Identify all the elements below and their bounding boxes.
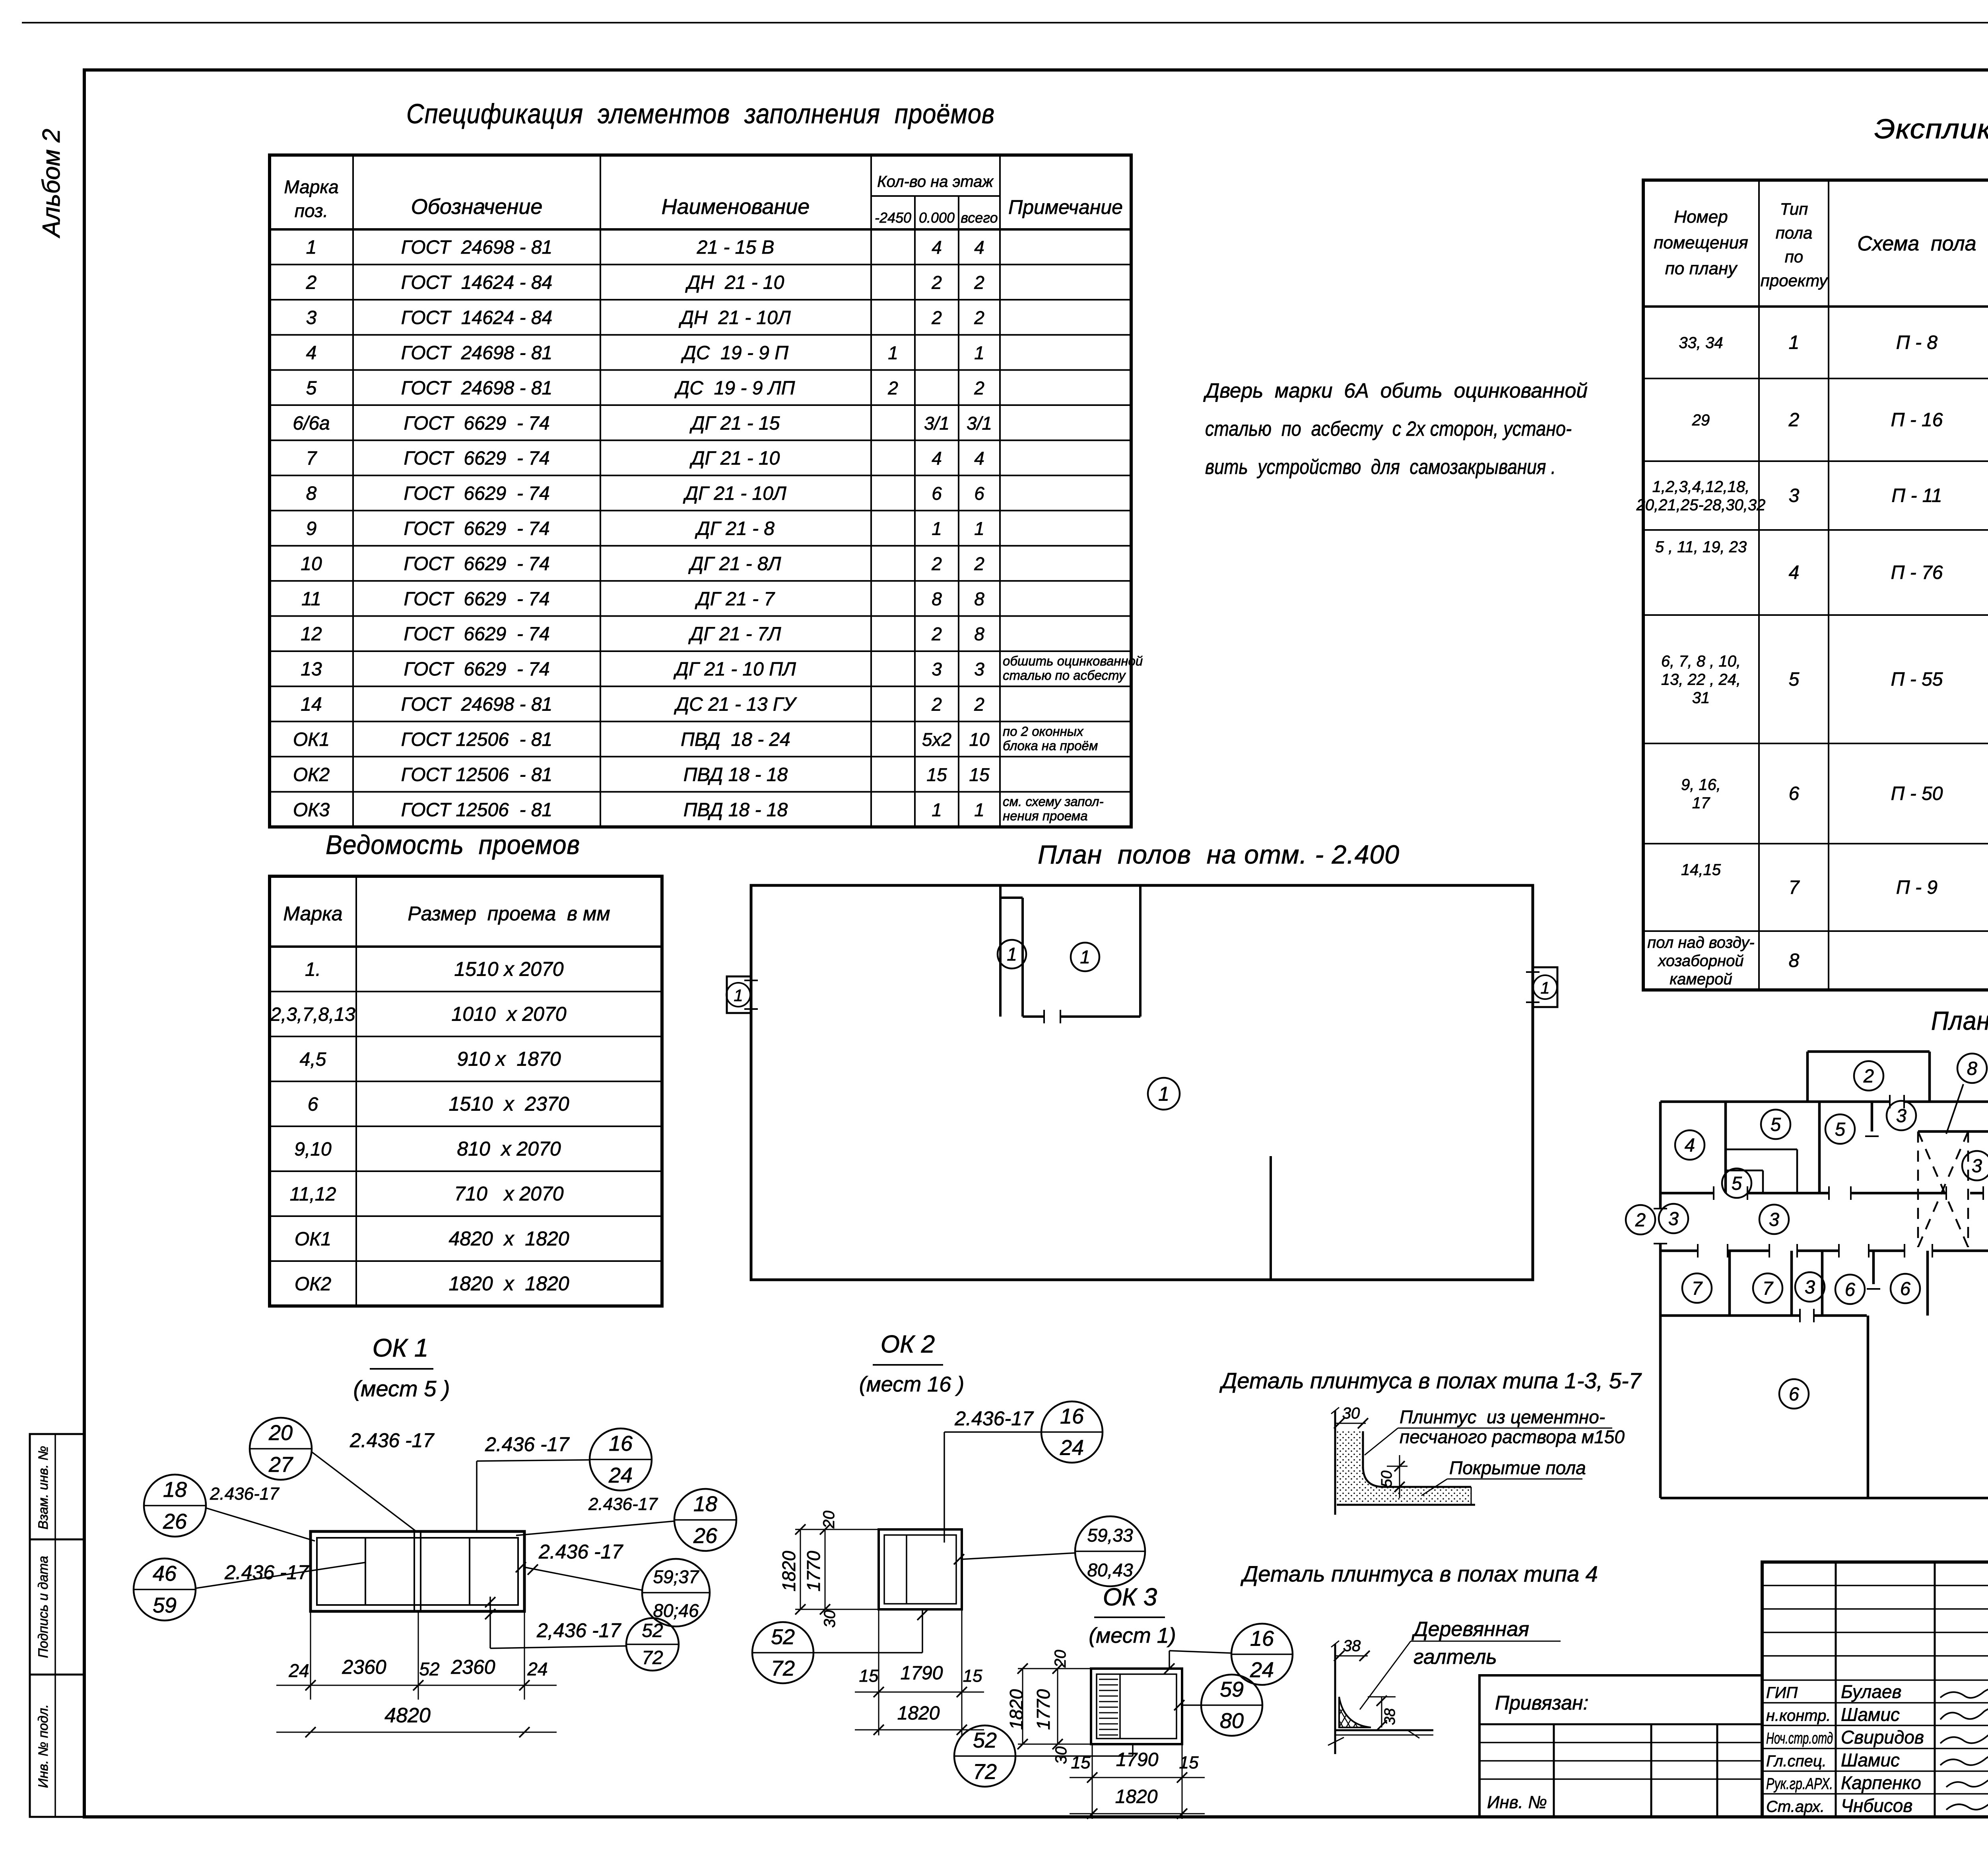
plan 0.000 leader for 8: [1946, 1084, 1963, 1134]
svg-text:38: 38: [1382, 1708, 1398, 1725]
svg-text:27: 27: [268, 1453, 293, 1477]
svg-text:Деталь плинтуса в полах типа 1: Деталь плинтуса в полах типа 1-3, 5-7: [1219, 1368, 1642, 1393]
plan -2.400 top room walls: [999, 885, 1002, 1017]
svg-text:59;37: 59;37: [653, 1566, 699, 1587]
svg-text:12: 12: [301, 624, 322, 645]
svg-text:1: 1: [1158, 1083, 1169, 1105]
svg-text:Спецификация элементов запол: Спецификация элементов заполнения проёмо…: [406, 98, 995, 129]
plan -2.400 right section tag: [1526, 967, 1557, 1007]
svg-text:910 х 1870: 910 х 1870: [457, 1048, 561, 1070]
svg-text:ПВД 18 - 24: ПВД 18 - 24: [681, 729, 790, 750]
svg-text:52: 52: [973, 1728, 997, 1752]
svg-text:72: 72: [771, 1656, 795, 1680]
svg-text:3/1: 3/1: [967, 413, 992, 433]
svg-text:ГОСТ 24698 - 81: ГОСТ 24698 - 81: [401, 342, 552, 363]
svg-text:1,2,3,4,12,18,: 1,2,3,4,12,18,: [1652, 478, 1750, 496]
svg-text:3: 3: [1972, 1155, 1982, 1176]
svg-text:Ноч.стр.отд: Ноч.стр.отд: [1766, 1730, 1833, 1747]
svg-text:80: 80: [1220, 1709, 1244, 1733]
svg-text:8: 8: [1789, 950, 1800, 971]
svg-text:Шамис: Шамис: [1841, 1750, 1900, 1770]
svg-text:Карпенко: Карпенко: [1841, 1772, 1921, 1793]
break marks: [1328, 1737, 1344, 1745]
svg-text:Деталь плинтуса в полах типа 4: Деталь плинтуса в полах типа 4: [1240, 1561, 1598, 1586]
room mark circle 6: [1835, 1275, 1865, 1304]
room mark circle 1: [998, 940, 1026, 968]
svg-text:ГОСТ 6629 - 74: ГОСТ 6629 - 74: [404, 553, 549, 574]
OK1 window elevation: [311, 1531, 524, 1611]
svg-text:1790: 1790: [1116, 1749, 1159, 1770]
svg-text:ГОСТ 6629 - 74: ГОСТ 6629 - 74: [404, 588, 549, 609]
room mark circle 3: [1795, 1272, 1825, 1302]
svg-text:Деревянная: Деревянная: [1411, 1618, 1529, 1641]
svg-text:2.436-17: 2.436-17: [954, 1407, 1034, 1430]
svg-text:2: 2: [931, 624, 942, 644]
OK1 leader circles: [250, 1418, 312, 1480]
svg-text:9,10: 9,10: [294, 1139, 332, 1160]
OK2 bottom dimensions: [878, 1609, 879, 1698]
svg-text:П - 8: П - 8: [1896, 332, 1938, 353]
svg-text:(мест 5 ): (мест 5 ): [353, 1376, 450, 1401]
svg-text:1790: 1790: [901, 1663, 943, 1684]
room mark circle 3: [1962, 1151, 1988, 1180]
svg-text:15: 15: [859, 1666, 879, 1686]
explikacia grid: [1643, 180, 1988, 990]
svg-text:1: 1: [888, 342, 898, 363]
svg-text:ПВД 18 - 18: ПВД 18 - 18: [683, 764, 788, 785]
svg-text:24: 24: [1250, 1658, 1274, 1682]
svg-text:11: 11: [301, 588, 321, 609]
svg-text:1: 1: [1540, 978, 1549, 997]
svg-text:ДС 19 - 9 ЛП: ДС 19 - 9 ЛП: [674, 378, 795, 399]
plan 0.000 corridor lower wall: [1660, 1250, 1698, 1252]
svg-text:ГОСТ 6629 - 74: ГОСТ 6629 - 74: [404, 483, 549, 504]
svg-text:П - 11: П - 11: [1891, 485, 1942, 507]
OK3 leader to 52/72: [954, 1725, 1015, 1787]
svg-text:ДГ 21 - 7: ДГ 21 - 7: [695, 588, 775, 609]
svg-text:17: 17: [1692, 794, 1710, 812]
svg-text:2: 2: [1635, 1209, 1646, 1230]
svg-text:1: 1: [932, 518, 942, 539]
svg-text:сталью по асбесту: сталью по асбесту: [1003, 668, 1126, 683]
svg-text:1: 1: [974, 342, 984, 363]
svg-text:3: 3: [1668, 1208, 1679, 1229]
svg-text:1: 1: [1080, 947, 1090, 967]
svg-text:1: 1: [974, 518, 984, 539]
svg-text:4: 4: [974, 237, 984, 258]
svg-text:План полов на отм. - 2.400: План полов на отм. - 2.400: [1038, 840, 1400, 869]
svg-text:пола: пола: [1776, 223, 1813, 242]
svg-text:52: 52: [419, 1659, 439, 1679]
svg-text:13: 13: [301, 659, 322, 680]
svg-text:7: 7: [1763, 1277, 1774, 1298]
svg-text:6: 6: [932, 483, 942, 504]
svg-text:3: 3: [1805, 1276, 1815, 1297]
room mark circle 7: [1753, 1273, 1782, 1303]
svg-text:15: 15: [963, 1666, 982, 1686]
svg-text:810 х 2070: 810 х 2070: [457, 1138, 561, 1160]
svg-text:Ведомость проемов: Ведомость проемов: [326, 830, 580, 860]
svg-text:Обозначение: Обозначение: [411, 195, 543, 219]
svg-text:72: 72: [642, 1648, 663, 1669]
svg-text:11,12: 11,12: [290, 1184, 336, 1205]
svg-text:камерой: камерой: [1670, 970, 1732, 988]
svg-text:н.контр.: н.контр.: [1766, 1707, 1831, 1724]
svg-text:по 2 оконных: по 2 оконных: [1003, 724, 1084, 739]
svg-text:ОК 2: ОК 2: [881, 1331, 935, 1358]
svg-text:1: 1: [932, 800, 942, 820]
OK1 dimension line 2: [276, 1732, 557, 1733]
svg-text:П - 55: П - 55: [1891, 669, 1943, 690]
svg-text:ДН 21 - 10: ДН 21 - 10: [685, 272, 784, 293]
svg-text:2,436 -17: 2,436 -17: [536, 1619, 621, 1642]
svg-text:2: 2: [974, 272, 984, 293]
svg-text:Ст.арх.: Ст.арх.: [1766, 1798, 1825, 1816]
svg-text:4: 4: [1789, 562, 1800, 583]
svg-text:4,5: 4,5: [300, 1049, 326, 1070]
svg-text:обшить оцинкованной: обшить оцинкованной: [1003, 654, 1143, 668]
room mark circle 3: [1659, 1204, 1688, 1233]
svg-text:Булаев: Булаев: [1841, 1681, 1902, 1702]
svg-text:2.436-17: 2.436-17: [588, 1494, 658, 1514]
svg-text:50: 50: [1378, 1471, 1395, 1487]
svg-text:46: 46: [153, 1562, 177, 1585]
room mark circle 3: [1759, 1205, 1789, 1234]
svg-text:П - 16: П - 16: [1891, 409, 1943, 431]
OK3 bottom dimensions: [1092, 1744, 1093, 1785]
svg-text:14: 14: [301, 694, 322, 715]
svg-text:18: 18: [163, 1478, 187, 1502]
svg-text:4: 4: [306, 342, 317, 363]
svg-text:2: 2: [931, 272, 942, 293]
svg-text:3: 3: [932, 659, 942, 679]
svg-text:6, 7, 8 , 10,: 6, 7, 8 , 10,: [1661, 653, 1741, 670]
svg-text:Экспликация полов: Экспликация полов: [1874, 113, 1988, 144]
svg-text:59: 59: [1220, 1677, 1244, 1701]
svg-text:ГОСТ 6629 - 74: ГОСТ 6629 - 74: [404, 624, 549, 645]
room mark circle 6: [1779, 1379, 1809, 1409]
svg-text:16: 16: [1250, 1626, 1274, 1650]
svg-text:1: 1: [1007, 944, 1017, 964]
svg-text:ДН 21 - 10Л: ДН 21 - 10Л: [678, 307, 791, 328]
svg-text:1: 1: [974, 800, 984, 820]
svg-text:1820 х 1820: 1820 х 1820: [448, 1273, 569, 1295]
top edge line: [22, 22, 1988, 23]
OK2 window elevation: [879, 1529, 962, 1609]
svg-text:38: 38: [1343, 1637, 1361, 1655]
svg-text:всего: всего: [961, 210, 998, 226]
room mark circle 8: [1957, 1054, 1987, 1083]
svg-text:2360: 2360: [342, 1656, 386, 1678]
svg-text:ГОСТ 6629 - 74: ГОСТ 6629 - 74: [404, 413, 549, 434]
plan 0.000 stairs top wall: [1918, 1130, 1988, 1133]
svg-text:Тип: Тип: [1780, 200, 1808, 218]
svg-text:ГИП: ГИП: [1766, 1684, 1798, 1702]
svg-text:ОК1: ОК1: [295, 1229, 331, 1250]
svg-text:24: 24: [1060, 1436, 1084, 1459]
room mark circle 1: [1148, 1078, 1180, 1110]
svg-text:2: 2: [306, 272, 317, 293]
plan 0.000 top walls: [1660, 1100, 1890, 1103]
svg-text:Шамис: Шамис: [1841, 1704, 1900, 1725]
privyazan box: [1479, 1675, 1762, 1817]
svg-text:6/6а: 6/6а: [293, 413, 330, 434]
svg-text:Свиридов: Свиридов: [1841, 1727, 1924, 1748]
svg-text:ГОСТ 6629 - 74: ГОСТ 6629 - 74: [404, 518, 549, 539]
svg-text:ГОСТ 24698 - 81: ГОСТ 24698 - 81: [401, 694, 552, 715]
svg-text:1820: 1820: [779, 1551, 799, 1591]
plan 0.000 lower rooms partitions: [1728, 1251, 1731, 1316]
svg-text:ГОСТ 12506 - 81: ГОСТ 12506 - 81: [401, 800, 552, 821]
svg-text:10: 10: [969, 729, 990, 750]
svg-text:Наименование: Наименование: [662, 195, 810, 219]
svg-text:31: 31: [1692, 689, 1710, 707]
plan 0.000 top room 2 left: [1807, 1050, 1930, 1053]
svg-text:2.436 -17: 2.436 -17: [485, 1433, 570, 1455]
svg-text:Примечание: Примечание: [1008, 196, 1123, 218]
svg-text:5: 5: [1771, 1114, 1781, 1135]
svg-text:ОК2: ОК2: [293, 764, 330, 785]
svg-text:710 х 2070: 710 х 2070: [454, 1183, 563, 1205]
OK3 left dimensions: [1022, 1669, 1023, 1744]
svg-text:8: 8: [974, 624, 984, 644]
svg-text:1.: 1.: [305, 959, 321, 980]
svg-text:2.436-17: 2.436-17: [210, 1484, 280, 1504]
svg-text:4820 х 1820: 4820 х 1820: [448, 1228, 569, 1250]
svg-text:нения проема: нения проема: [1003, 809, 1088, 823]
svg-text:ГОСТ 12506 - 81: ГОСТ 12506 - 81: [401, 729, 552, 750]
svg-text:ГОСТ 24698 - 81: ГОСТ 24698 - 81: [401, 237, 552, 258]
svg-text:ГОСТ 24698 - 81: ГОСТ 24698 - 81: [401, 378, 552, 399]
svg-text:Размер проема в мм: Размер проема в мм: [408, 902, 610, 925]
svg-text:3/1: 3/1: [924, 413, 949, 433]
svg-text:Инв. №: Инв. №: [1487, 1793, 1547, 1812]
svg-text:2: 2: [931, 553, 942, 574]
svg-text:ОК2: ОК2: [295, 1274, 331, 1295]
svg-text:14,15: 14,15: [1681, 861, 1721, 879]
svg-text:1820: 1820: [1115, 1786, 1158, 1807]
svg-text:1510 х 2070: 1510 х 2070: [454, 958, 563, 980]
svg-text:1820: 1820: [897, 1703, 940, 1724]
svg-text:ГОСТ 6629 - 74: ГОСТ 6629 - 74: [404, 659, 549, 680]
svg-text:30: 30: [1342, 1405, 1360, 1422]
svg-text:8: 8: [1967, 1058, 1977, 1079]
svg-text:20,21,25-28,30,32: 20,21,25-28,30,32: [1636, 497, 1766, 514]
plan 0.000 left wall: [1659, 1102, 1662, 1209]
OK1 leader lines: [312, 1452, 416, 1531]
room mark circle 7: [1682, 1273, 1712, 1303]
svg-text:по плану: по плану: [1665, 259, 1738, 278]
svg-text:ГОСТ 6629 - 74: ГОСТ 6629 - 74: [404, 448, 549, 469]
svg-text:П - 76: П - 76: [1891, 562, 1943, 583]
svg-text:59: 59: [153, 1593, 177, 1617]
svg-text:ДГ 21 - 10: ДГ 21 - 10: [689, 448, 780, 469]
room mark circle 6: [1891, 1274, 1920, 1303]
room mark circle 5: [1825, 1114, 1855, 1144]
svg-text:30: 30: [821, 1610, 839, 1628]
OK3 circle 59/80: [1201, 1675, 1262, 1736]
room mark circle 5: [1722, 1168, 1751, 1198]
svg-text:П - 9: П - 9: [1896, 877, 1938, 898]
svg-text:галтель: галтель: [1413, 1646, 1497, 1669]
svg-text:сталью по асбесту с 2х стор: сталью по асбесту с 2х сторон, устано-: [1205, 417, 1572, 441]
svg-text:по: по: [1785, 247, 1803, 266]
svg-text:3: 3: [974, 659, 984, 679]
svg-text:ДГ 21 - 8Л: ДГ 21 - 8Л: [688, 553, 781, 574]
svg-text:проекту: проекту: [1761, 271, 1829, 290]
svg-text:Взам. инв. №: Взам. инв. №: [36, 1446, 51, 1529]
svg-text:3: 3: [1769, 1209, 1779, 1230]
svg-text:хозаборной: хозаборной: [1657, 952, 1743, 970]
svg-text:ДГ 21 - 7Л: ДГ 21 - 7Л: [688, 624, 781, 645]
svg-text:ОК1: ОК1: [293, 729, 330, 750]
svg-text:2: 2: [887, 378, 898, 398]
svg-text:ДС 21 - 13 ГУ: ДС 21 - 13 ГУ: [674, 694, 797, 715]
svg-text:33, 34: 33, 34: [1679, 334, 1723, 352]
svg-text:1770: 1770: [1033, 1689, 1054, 1730]
svg-text:1: 1: [1789, 332, 1800, 353]
svg-text:24: 24: [288, 1660, 309, 1681]
svg-text:10: 10: [301, 553, 322, 574]
svg-text:8: 8: [932, 588, 942, 609]
svg-text:5: 5: [1835, 1118, 1846, 1139]
svg-text:План полов на отм. 0.000: План полов на отм. 0.000: [1931, 1006, 1988, 1035]
svg-text:2: 2: [974, 553, 984, 574]
svg-text:Рук.гр.АРХ.: Рук.гр.АРХ.: [1766, 1775, 1833, 1793]
svg-text:2,3,7,8,13: 2,3,7,8,13: [270, 1004, 355, 1025]
svg-text:ДГ 21 - 10Л: ДГ 21 - 10Л: [683, 483, 786, 504]
svg-text:15: 15: [1071, 1753, 1091, 1772]
svg-text:5 , 11, 19, 23: 5 , 11, 19, 23: [1655, 538, 1747, 556]
room mark circle 5: [1761, 1110, 1790, 1139]
svg-text:ДГ 21 - 8: ДГ 21 - 8: [695, 518, 775, 539]
svg-text:2: 2: [974, 694, 984, 715]
svg-text:52: 52: [642, 1620, 663, 1642]
svg-text:Чнбисов: Чнбисов: [1841, 1795, 1912, 1816]
left margin stamp boxes: [30, 1434, 84, 1817]
svg-text:5: 5: [1732, 1172, 1742, 1193]
svg-text:4: 4: [1685, 1134, 1695, 1155]
svg-text:2360: 2360: [450, 1656, 495, 1678]
svg-text:7: 7: [1789, 877, 1800, 898]
svg-text:поз.: поз.: [295, 200, 328, 221]
svg-text:1820: 1820: [1006, 1689, 1027, 1730]
svg-text:13, 22 , 24,: 13, 22 , 24,: [1661, 671, 1741, 689]
svg-text:3: 3: [1789, 485, 1800, 507]
svg-text:15: 15: [1179, 1753, 1199, 1772]
svg-text:1: 1: [306, 237, 317, 258]
svg-text:Привязан:: Привязан:: [1495, 1692, 1588, 1714]
svg-text:Инв. № подл.: Инв. № подл.: [36, 1704, 51, 1788]
svg-text:0.000: 0.000: [919, 210, 955, 226]
svg-text:2.436 -17: 2.436 -17: [224, 1561, 309, 1584]
title block frame: [1762, 1562, 1988, 1817]
svg-text:ОК 3: ОК 3: [1103, 1584, 1157, 1611]
svg-text:вить устройство для самозак: вить устройство для самозакрывания .: [1205, 456, 1556, 479]
svg-text:5: 5: [1789, 669, 1800, 690]
svg-text:4: 4: [932, 448, 942, 469]
svg-text:30: 30: [1052, 1747, 1070, 1764]
svg-text:15: 15: [969, 764, 990, 785]
svg-text:3: 3: [306, 307, 317, 328]
svg-text:ОК3: ОК3: [293, 800, 330, 821]
OK3 circle 16/24: [1231, 1624, 1293, 1685]
svg-text:блока на проём: блока на проём: [1003, 738, 1098, 753]
svg-text:20: 20: [268, 1421, 293, 1445]
plan 0.000 upper band partitions: [1724, 1102, 1727, 1193]
svg-text:24: 24: [527, 1659, 547, 1679]
svg-text:9, 16,: 9, 16,: [1681, 776, 1721, 794]
svg-text:Гл.спец.: Гл.спец.: [1766, 1752, 1827, 1770]
svg-text:6: 6: [1900, 1278, 1911, 1299]
svg-text:2.436 -17: 2.436 -17: [538, 1541, 623, 1563]
svg-text:59,33: 59,33: [1087, 1525, 1133, 1545]
svg-text:15: 15: [926, 764, 947, 785]
plinth detail 1 sketch: [1334, 1411, 1336, 1515]
svg-text:18: 18: [693, 1492, 717, 1516]
svg-text:Схема пола: Схема пола: [1857, 232, 1976, 255]
room mark circle 3: [1887, 1101, 1916, 1130]
svg-text:4: 4: [932, 237, 942, 258]
svg-text:помещения: помещения: [1654, 233, 1748, 252]
svg-text:(мест 1): (мест 1): [1089, 1624, 1176, 1648]
svg-text:Дверь марки 6А обить оцинк: Дверь марки 6А обить оцинкованной: [1203, 379, 1588, 402]
svg-text:2: 2: [1788, 409, 1800, 431]
plan 0.000 hall divider: [1867, 1316, 1870, 1498]
svg-text:7: 7: [1692, 1277, 1703, 1298]
title block left columns: [1835, 1562, 1837, 1817]
svg-text:26: 26: [693, 1524, 718, 1548]
OK2 circle 59,33/80,43: [1075, 1516, 1145, 1586]
svg-text:1770: 1770: [803, 1551, 824, 1591]
svg-text:52: 52: [771, 1625, 795, 1649]
svg-text:6: 6: [1845, 1279, 1856, 1300]
OK2 circle 52/72: [752, 1622, 813, 1683]
svg-text:8: 8: [974, 588, 984, 609]
room mark circle 2: [1626, 1205, 1655, 1234]
OK1 dimension line 1: [310, 1611, 311, 1700]
svg-text:26: 26: [163, 1510, 187, 1533]
plan -2.400 left section tag: [726, 976, 758, 1013]
svg-text:80,43: 80,43: [1087, 1560, 1133, 1580]
svg-text:80;46: 80;46: [653, 1600, 699, 1621]
svg-text:1: 1: [734, 986, 743, 1005]
plinth detail 2 sketch: [1334, 1644, 1336, 1754]
svg-text:Покрытие пола: Покрытие пола: [1449, 1457, 1586, 1478]
svg-text:5х2: 5х2: [922, 729, 951, 750]
svg-text:ДГ 21 - 10 ПЛ: ДГ 21 - 10 ПЛ: [673, 659, 796, 680]
plan -2.400 outer walls: [751, 885, 1533, 1280]
title block signatures: [1940, 1688, 1988, 1698]
svg-text:6: 6: [308, 1094, 318, 1115]
svg-text:7: 7: [306, 448, 318, 469]
svg-text:4: 4: [974, 448, 984, 469]
svg-text:2: 2: [931, 307, 942, 328]
svg-text:Марка: Марка: [284, 177, 338, 197]
title block left rows: [1762, 1585, 1988, 1586]
room mark circle 4: [1675, 1130, 1705, 1160]
svg-text:2: 2: [1863, 1065, 1874, 1086]
svg-text:1510 х 2370: 1510 х 2370: [448, 1093, 569, 1115]
plan -2.400 inner wall: [1270, 1156, 1272, 1280]
svg-text:1010 х 2070: 1010 х 2070: [451, 1003, 566, 1025]
plan 0.000 stairwell dashed: [1917, 1131, 1919, 1247]
svg-text:Кол-во на этаж: Кол-во на этаж: [877, 173, 994, 190]
vedomost grid: [270, 876, 662, 1306]
svg-text:2.436 -17: 2.436 -17: [349, 1429, 435, 1452]
svg-text:2: 2: [974, 307, 984, 328]
svg-text:ПВД 18 - 18: ПВД 18 - 18: [683, 800, 788, 821]
